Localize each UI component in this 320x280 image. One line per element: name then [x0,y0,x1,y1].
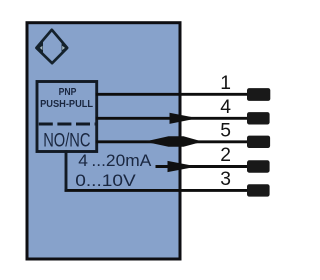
svg-text:4: 4 [220,97,231,118]
terminal pin4 [247,112,270,124]
right triangle inner light [62,46,65,50]
svg-text:4 ...20mA: 4 ...20mA [78,151,152,170]
left triangle inner light [40,46,43,50]
svg-text:2: 2 [220,145,231,166]
right triangle of symbol [62,41,69,54]
wire pin4 [96,117,249,120]
svg-text:NO/NC: NO/NC [43,130,90,151]
svg-text:0...10V: 0...10V [75,172,136,190]
proximity switch symbol (diamond) [36,30,67,63]
arrow on pin2 wire [168,161,198,172]
svg-text:PNP: PNP [59,87,77,98]
wire pin5 [96,140,249,143]
wire pin3 [65,189,249,192]
terminal pin5 [247,136,270,148]
vertical wire from box to pin3 [65,150,68,190]
arrow on pin4 wire [170,113,198,124]
wire pin2 [156,165,249,168]
terminal pin2 [247,160,270,172]
svg-text:3: 3 [220,169,231,190]
left triangle of symbol [35,41,43,54]
sensor body (blue box) [27,23,180,259]
function box U1 [37,82,97,152]
terminal pin3 [247,184,270,196]
terminal pin1 [247,88,270,101]
svg-text:5: 5 [220,121,231,142]
svg-text:PUSH-PULL: PUSH-PULL [40,99,93,110]
wire pin1 [96,93,249,96]
dashed divider [39,123,96,126]
svg-text:1: 1 [220,73,231,94]
double arrow on pin5 wire [145,136,203,147]
